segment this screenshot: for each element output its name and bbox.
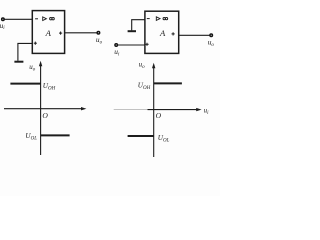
graph 2 UOH level segment — [154, 82, 182, 84]
op-amp A1 minus input sign — [35, 18, 38, 20]
op-amp A2 plus input sign — [146, 43, 149, 45]
wire A1 output — [65, 32, 98, 34]
op-amp A1 infinity symbol — [50, 18, 55, 20]
svg-text:O: O — [156, 111, 162, 120]
op-amp A2 infinity symbol — [163, 17, 168, 19]
wire input to A1 — [4, 18, 32, 20]
graph 2 UOL level segment — [128, 135, 154, 137]
ground circuit 2 — [128, 30, 136, 32]
wire A2 output — [179, 34, 210, 36]
svg-text:A: A — [45, 28, 52, 38]
op-amp A2 gain triangle symbol — [156, 17, 160, 21]
op-amp A2 minus input sign — [147, 18, 150, 20]
wire A2 minus input to ground — [132, 20, 145, 31]
op-amp A1 plus input sign — [34, 42, 37, 44]
graph 2 horizontal axis — [114, 109, 149, 111]
input terminal circuit 1 — [2, 18, 5, 21]
graph 1 vertical axis — [40, 64, 42, 156]
ground circuit 1 — [14, 61, 23, 63]
op-amp A1 gain triangle symbol — [43, 17, 47, 21]
op-amp A1 output plus sign — [59, 32, 62, 34]
graph 1 horizontal axis — [4, 108, 83, 110]
graph 2 vertical axis — [153, 66, 155, 158]
output terminal circuit 1 — [97, 32, 100, 35]
output terminal circuit 2 — [210, 34, 213, 37]
svg-text:A: A — [159, 28, 166, 38]
wire input to A2 — [118, 44, 145, 46]
graph 1 UOH level segment — [10, 83, 40, 85]
input terminal circuit 2 — [115, 44, 118, 47]
op-amp A1 box — [32, 11, 64, 54]
graph 1 UOL level segment — [41, 134, 70, 136]
svg-text:O: O — [42, 111, 48, 120]
wire A1 plus input to ground — [18, 43, 32, 60]
op-amp A2 output plus sign — [172, 33, 175, 35]
op-amp A2 box — [145, 11, 179, 53]
